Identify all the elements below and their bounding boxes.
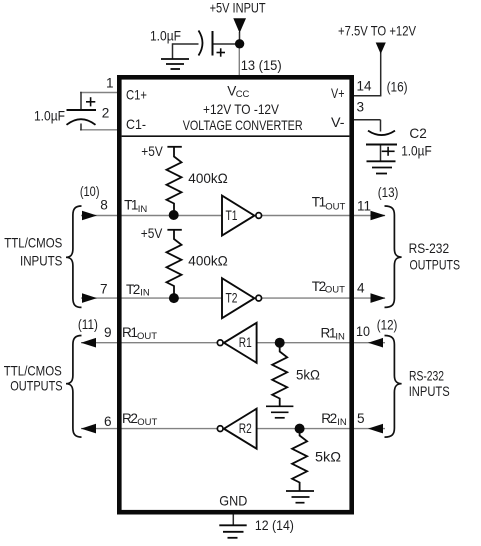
svg-text:R2: R2 — [239, 421, 252, 436]
svg-text:(16): (16) — [387, 79, 408, 94]
svg-text:C1-: C1- — [126, 117, 146, 132]
svg-text:+5V: +5V — [141, 226, 163, 241]
svg-text:10: 10 — [356, 324, 370, 339]
svg-text:T1: T1 — [124, 197, 138, 212]
svg-text:OUT: OUT — [325, 285, 345, 296]
svg-text:(13): (13) — [378, 185, 399, 200]
svg-text:IN: IN — [337, 417, 347, 428]
svg-text:14: 14 — [357, 79, 372, 94]
svg-text:R1: R1 — [239, 335, 252, 350]
svg-text:7: 7 — [100, 281, 108, 296]
svg-text:OUTPUTS: OUTPUTS — [410, 258, 461, 273]
svg-text:T2: T2 — [126, 282, 140, 297]
svg-text:INPUTS: INPUTS — [20, 253, 62, 268]
svg-text:C1+: C1+ — [126, 88, 147, 103]
svg-text:(12): (12) — [377, 317, 398, 332]
svg-text:+7.5V TO +12V: +7.5V TO +12V — [338, 23, 416, 38]
svg-text:OUT: OUT — [137, 417, 157, 428]
svg-text:1.0µF: 1.0µF — [150, 28, 181, 43]
svg-text:C2: C2 — [409, 126, 426, 141]
svg-text:1.0µF: 1.0µF — [34, 109, 65, 124]
svg-text:+5V: +5V — [141, 144, 163, 159]
svg-text:400kΩ: 400kΩ — [188, 171, 228, 186]
svg-text:RS-232: RS-232 — [409, 368, 444, 383]
svg-text:5: 5 — [357, 411, 365, 426]
svg-text:9: 9 — [104, 325, 112, 340]
svg-text:(10): (10) — [80, 184, 100, 199]
svg-text:3: 3 — [357, 99, 365, 114]
svg-text:5kΩ: 5kΩ — [315, 449, 341, 464]
svg-text:R2: R2 — [122, 411, 137, 426]
svg-text:11: 11 — [357, 199, 371, 214]
svg-text:T2: T2 — [226, 290, 238, 305]
svg-text:+12V TO -12V: +12V TO -12V — [203, 102, 279, 117]
svg-text:R2: R2 — [321, 411, 336, 426]
svg-text:R1: R1 — [122, 325, 137, 340]
svg-text:OUTPUTS: OUTPUTS — [10, 379, 62, 394]
svg-text:+5V INPUT: +5V INPUT — [210, 0, 266, 15]
svg-text:1: 1 — [106, 76, 114, 91]
svg-text:5kΩ: 5kΩ — [296, 368, 320, 383]
svg-text:13 (15): 13 (15) — [241, 58, 282, 73]
svg-text:2: 2 — [102, 106, 110, 121]
svg-text:GND: GND — [219, 493, 247, 508]
svg-text:6: 6 — [104, 414, 112, 429]
svg-text:T2: T2 — [312, 279, 326, 294]
svg-text:INPUTS: INPUTS — [409, 384, 450, 399]
svg-text:R1: R1 — [321, 325, 336, 340]
svg-text:1.0µF: 1.0µF — [401, 144, 432, 159]
svg-text:(11): (11) — [78, 317, 98, 332]
svg-text:IN: IN — [335, 332, 345, 343]
svg-text:RS-232: RS-232 — [409, 241, 450, 256]
svg-text:OUT: OUT — [325, 201, 345, 212]
svg-text:400kΩ: 400kΩ — [188, 254, 228, 269]
svg-text:V-: V- — [331, 115, 345, 130]
svg-text:VOLTAGE CONVERTER: VOLTAGE CONVERTER — [183, 118, 303, 133]
svg-text:T1: T1 — [226, 208, 238, 223]
svg-text:IN: IN — [140, 287, 150, 298]
svg-text:TTL/CMOS: TTL/CMOS — [4, 363, 62, 378]
svg-text:4: 4 — [357, 280, 365, 295]
svg-text:12 (14): 12 (14) — [255, 518, 294, 533]
svg-text:CC: CC — [236, 89, 250, 100]
svg-text:IN: IN — [138, 204, 148, 215]
svg-text:V+: V+ — [331, 86, 345, 101]
svg-text:T1: T1 — [312, 194, 326, 209]
svg-text:TTL/CMOS: TTL/CMOS — [4, 236, 62, 251]
svg-text:OUT: OUT — [137, 331, 157, 342]
svg-text:8: 8 — [100, 198, 108, 213]
